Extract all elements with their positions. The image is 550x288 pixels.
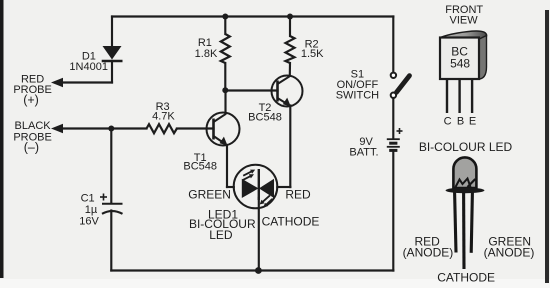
junction node: black probe / left rail (108, 126, 114, 132)
svg-text:1µ: 1µ (85, 204, 98, 216)
wire: left rail lower (C1 to bottom) (110, 211, 112, 271)
label LED1 BI-COLOUR LED (189, 208, 256, 243)
switch S1 (391, 73, 410, 98)
wire: R2 top lead (289, 17, 291, 37)
label FRONT VIEW (445, 4, 483, 26)
red probe arrowhead (51, 78, 63, 87)
LED front view body (446, 157, 485, 193)
label BC 548 inside package (450, 45, 470, 71)
label C1 1u 16V (79, 192, 99, 227)
svg-text:4.7K: 4.7K (152, 110, 175, 122)
svg-text:LED: LED (209, 228, 233, 242)
emission arrows top (243, 170, 255, 180)
wire: switch to battery (392, 98, 394, 139)
wire: R1 bottom lead (224, 63, 226, 90)
resistor R3 (147, 124, 177, 133)
label RED PROBE (+) (13, 74, 52, 107)
BC548 front view package (440, 31, 487, 79)
wire: battery bottom lead (392, 151, 394, 271)
svg-text:VIEW: VIEW (450, 14, 479, 26)
svg-text:(ANODE): (ANODE) (484, 245, 535, 259)
svg-text:B: B (457, 115, 464, 127)
wire: D1 top lead (111, 17, 113, 47)
transistor T1 (207, 113, 240, 146)
LED front view legs (455, 193, 473, 270)
svg-text:SWITCH: SWITCH (336, 89, 379, 101)
svg-text:C1: C1 (81, 192, 95, 204)
svg-text:BC548: BC548 (248, 111, 282, 123)
LED1 bi-colour LED (234, 165, 278, 209)
bottom light band (0, 279, 550, 288)
wire: top rail (112, 15, 393, 17)
wire: T2 emitter down (289, 106, 291, 188)
label R1 1.8K (195, 37, 218, 60)
label 9V BATT. (349, 136, 378, 159)
wire: D1 bottom lead to red probe (111, 61, 113, 83)
wire: node T1 collector to T2 base (225, 89, 277, 91)
left border bar (0, 0, 4, 278)
label RED (ANODE) (403, 235, 454, 260)
wire: black probe line (56, 127, 147, 129)
svg-text:RED: RED (285, 188, 311, 202)
wire: to LED left (227, 186, 234, 188)
resistor R2 (286, 36, 295, 63)
BC548 legs (447, 79, 472, 113)
wire: switch top lead (392, 17, 394, 73)
label R2 1.5K (301, 39, 324, 61)
svg-text:1.5K: 1.5K (301, 48, 324, 60)
label C B E (444, 115, 477, 127)
svg-text:(+): (+) (23, 93, 39, 107)
svg-text:(–): (–) (24, 141, 39, 155)
emission arrows bottom (260, 195, 273, 207)
wire: bottom rail (111, 269, 393, 271)
svg-text:BI-COLOUR LED: BI-COLOUR LED (419, 140, 513, 154)
wire: R2 bottom lead (289, 63, 291, 76)
junction node: R2 top (287, 14, 293, 20)
svg-text:16V: 16V (79, 216, 99, 228)
junction node: T1 collector / T2 base (222, 87, 228, 93)
label S1 ON/OFF SWITCH (336, 68, 379, 101)
svg-text:548: 548 (450, 57, 470, 71)
wire: red probe line (56, 81, 112, 83)
diode D1 (103, 46, 122, 60)
junction node: LED cathode on bottom rail (255, 267, 262, 274)
label GREEN (ANODE) (484, 235, 535, 260)
label BLACK PROBE (-) (13, 120, 52, 154)
wire: left rail upper (to C1) (110, 129, 112, 204)
label R3 4.7K (152, 101, 175, 123)
battery 9V (387, 128, 403, 150)
wire: T1 collector lead (224, 90, 226, 113)
wire: R3 right to T1 base (177, 127, 214, 129)
resistor R1 (221, 34, 230, 63)
svg-text:(ANODE): (ANODE) (403, 245, 454, 259)
wire: T1 emitter down (226, 145, 228, 187)
wire: R1 top lead (224, 17, 226, 35)
junction node: R1 top (222, 14, 228, 20)
svg-text:1N4001: 1N4001 (69, 61, 108, 73)
svg-text:E: E (469, 115, 476, 127)
svg-text:CATHODE: CATHODE (262, 214, 320, 228)
svg-text:BC548: BC548 (183, 161, 217, 173)
svg-text:BATT.: BATT. (349, 147, 378, 159)
svg-text:C: C (444, 115, 452, 127)
svg-text:CATHODE: CATHODE (437, 271, 495, 285)
svg-text:1.8K: 1.8K (195, 48, 218, 60)
transistor T2 (272, 76, 303, 107)
wire: LED cathode down (258, 198, 260, 271)
svg-text:GREEN: GREEN (188, 188, 231, 202)
label T1 BC548 (183, 152, 217, 173)
label D1 1N4001 (69, 50, 108, 73)
black probe arrowhead (51, 124, 63, 133)
wire: LED right (277, 186, 290, 188)
capacitor C1 (100, 194, 123, 214)
right border bar (545, 10, 549, 283)
label T2 BC548 (248, 102, 282, 123)
